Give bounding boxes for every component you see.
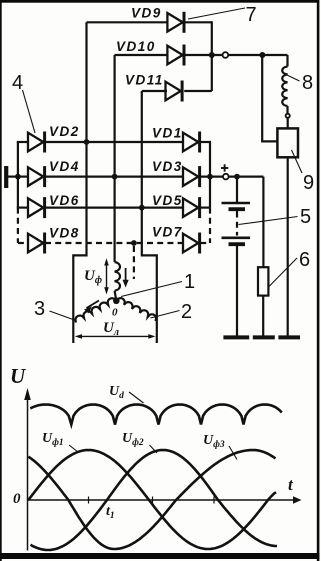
svg-text:VD7: VD7: [152, 225, 183, 240]
svg-text:8: 8: [302, 72, 313, 94]
svg-text:t: t: [288, 475, 294, 494]
svg-text:VD1: VD1: [152, 126, 183, 141]
svg-text:Uф3: Uф3: [203, 433, 225, 450]
svg-text:3: 3: [34, 298, 45, 320]
svg-text:t1: t1: [106, 504, 115, 521]
svg-text:0: 0: [13, 491, 21, 507]
svg-text:VD8: VD8: [49, 226, 80, 241]
svg-text:VD9: VD9: [131, 6, 162, 21]
svg-text:1: 1: [184, 271, 195, 293]
svg-text:9: 9: [303, 172, 314, 194]
svg-text:VD3: VD3: [152, 159, 183, 174]
svg-text:Ud: Ud: [109, 384, 124, 401]
svg-text:Uф1: Uф1: [42, 431, 64, 448]
svg-text:VD2: VD2: [49, 124, 80, 139]
svg-text:0: 0: [112, 307, 118, 319]
svg-text:7: 7: [246, 4, 257, 26]
svg-text:Uл: Uл: [103, 320, 119, 338]
svg-text:VD6: VD6: [49, 193, 80, 208]
svg-text:5: 5: [300, 206, 311, 228]
svg-text:VD5: VD5: [152, 193, 183, 208]
svg-text:2: 2: [181, 301, 192, 323]
svg-text:Uф: Uф: [84, 268, 102, 286]
svg-text:Uф2: Uф2: [122, 431, 144, 448]
svg-text:6: 6: [299, 249, 310, 271]
svg-text:VD4: VD4: [49, 159, 80, 174]
svg-text:4: 4: [12, 72, 23, 94]
svg-text:VD10: VD10: [116, 39, 156, 54]
svg-text:U: U: [10, 364, 27, 388]
svg-text:VD11: VD11: [125, 73, 164, 88]
